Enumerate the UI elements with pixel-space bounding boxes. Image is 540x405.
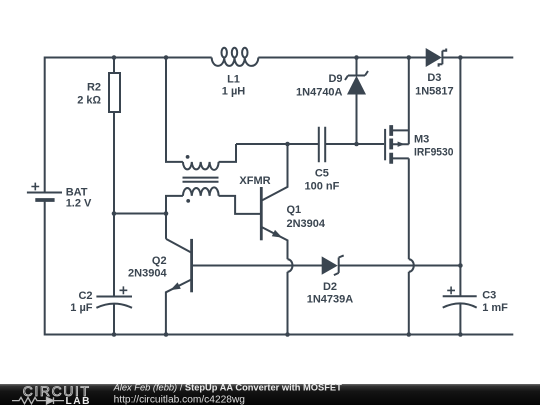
junction C2 / bottom rail: [112, 332, 117, 337]
svg-text:IRF9530: IRF9530: [414, 147, 454, 159]
wire top rail right: [442, 57, 513, 59]
wire R2 top lead: [113, 58, 115, 73]
junction D2 wire / right rail: [458, 263, 463, 268]
svg-text:1 mF: 1 mF: [482, 302, 508, 314]
junction D9 / top rail: [354, 55, 359, 60]
junction M3 source / top rail: [407, 55, 412, 60]
svg-text:R2: R2: [87, 81, 101, 93]
svg-text:2N3904: 2N3904: [287, 218, 326, 230]
svg-text:1N5817: 1N5817: [415, 86, 454, 98]
wire D2 to right rail: [339, 265, 461, 267]
svg-text:1 µF: 1 µF: [70, 302, 93, 314]
svg-text:C3: C3: [482, 289, 496, 301]
mosfet M3: [385, 125, 409, 164]
junction D3 / right rail: [458, 55, 463, 60]
inductor L1: [212, 48, 259, 66]
junction D9 anode / gate wire: [354, 142, 359, 147]
svg-text:Q2: Q2: [152, 255, 167, 267]
zener diode D2: [322, 255, 344, 275]
capacitor C3: [443, 287, 477, 335]
wire top rail left: [45, 58, 212, 193]
svg-text:D9: D9: [328, 73, 342, 85]
wire bottom winding right lead to Q1 base: [219, 196, 260, 214]
svg-text:1 µH: 1 µH: [222, 85, 246, 97]
wire node A horizontal: [114, 213, 166, 215]
wire bottom winding left lead: [166, 196, 183, 239]
wire top winding right lead: [219, 144, 236, 162]
phase dot bottom winding: [186, 199, 190, 203]
svg-text:1.2 V: 1.2 V: [66, 198, 92, 210]
svg-text:2 kΩ: 2 kΩ: [77, 94, 101, 106]
wire right rail: [459, 58, 461, 297]
footer logo squiggle: [12, 397, 64, 404]
schottky diode D3: [426, 48, 447, 67]
wire Q2 base to D2: [192, 265, 322, 267]
svg-text:M3: M3: [414, 133, 429, 145]
svg-text:http://circuitlab.com/c4228wg: http://circuitlab.com/c4228wg: [114, 395, 246, 405]
wire M3 source to top rail: [408, 58, 410, 145]
junction transformer branch / top rail: [164, 55, 169, 60]
svg-text:Alex Feb (febb) / StepUp AA Co: Alex Feb (febb) / StepUp AA Converter wi…: [113, 383, 342, 393]
junction Q1 emitter / bottom rail: [285, 332, 290, 337]
phase dot top winding: [186, 155, 190, 159]
resistor R2: [109, 73, 120, 112]
wire M3 drain down with hop: [409, 158, 414, 334]
wire to transformer primary top: [166, 58, 183, 162]
svg-text:D2: D2: [323, 281, 337, 293]
capacitor C2: [96, 286, 132, 334]
capacitor C5: [319, 127, 325, 163]
junction Q2 emitter / bottom rail: [164, 332, 169, 337]
wire C5 to M3 gate: [325, 143, 384, 145]
junction R2 / top rail: [112, 55, 117, 60]
svg-text:D3: D3: [427, 72, 441, 84]
wire left rail and bottom rail: [45, 200, 514, 335]
junction R2 lead / node A: [112, 211, 117, 216]
transistor Q2: [166, 239, 192, 335]
svg-text:2N3904: 2N3904: [128, 267, 167, 279]
junction node A / transformer secondary: [164, 211, 169, 216]
wire top rail middle: [258, 57, 426, 59]
junction Q1 collector / gate wire: [285, 142, 290, 147]
svg-text:C2: C2: [78, 290, 92, 302]
footer bar: [0, 384, 540, 405]
svg-text:XFMR: XFMR: [239, 175, 270, 187]
svg-text:C5: C5: [315, 168, 329, 180]
zener diode D9: [345, 58, 368, 145]
junction M3 drain / bottom rail: [407, 332, 412, 337]
svg-text:1N4739A: 1N4739A: [307, 294, 354, 306]
svg-text:100 nF: 100 nF: [304, 180, 339, 192]
svg-text:Q1: Q1: [287, 204, 302, 216]
transformer XFMR bottom winding: [183, 187, 219, 196]
battery BAT: [27, 183, 62, 200]
transformer XFMR top winding: [183, 162, 219, 170]
junction C3 / bottom rail: [458, 332, 463, 337]
svg-text:LAB: LAB: [66, 396, 92, 405]
transformer XFMR core: [183, 178, 219, 182]
transistor Q1: [261, 144, 292, 335]
wire R2 bottom lead: [113, 113, 115, 297]
svg-text:1N4740A: 1N4740A: [296, 87, 343, 99]
wire C5 left: [236, 143, 319, 145]
svg-text:L1: L1: [227, 73, 240, 85]
